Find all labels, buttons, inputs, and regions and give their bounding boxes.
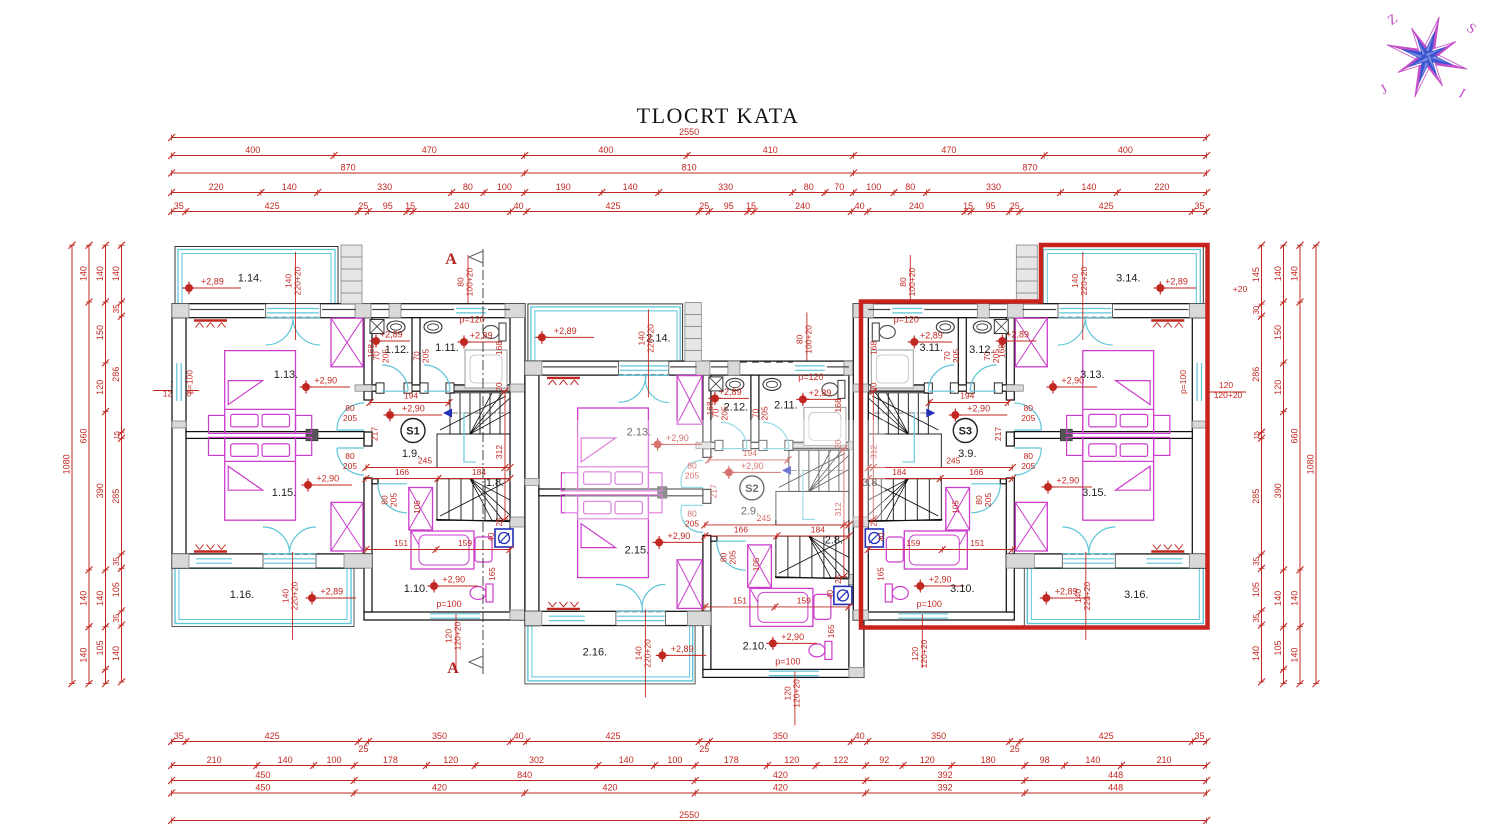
- svg-text:166: 166: [969, 467, 983, 477]
- svg-text:S3: S3: [959, 426, 972, 438]
- wall pier: [525, 478, 539, 485]
- svg-text:2.11.: 2.11.: [774, 399, 798, 411]
- nightstand: [209, 437, 225, 455]
- svg-text:140: 140: [1081, 182, 1096, 192]
- door jamb cap: [924, 383, 932, 393]
- rooms-hall wall c: [703, 535, 711, 611]
- door jamb cap: [966, 383, 974, 393]
- stairs (S2): [789, 450, 849, 491]
- svg-text:15: 15: [112, 431, 121, 439]
- svg-text:+2,90: +2,90: [781, 632, 804, 642]
- svg-text:25: 25: [699, 201, 709, 211]
- svg-text:25: 25: [1010, 744, 1020, 754]
- door glass: [264, 558, 315, 560]
- sink: [387, 321, 405, 333]
- svg-text:80: 80: [1024, 451, 1034, 461]
- svg-text:245: 245: [418, 456, 432, 466]
- svg-text:400: 400: [598, 145, 613, 155]
- svg-text:205: 205: [983, 493, 993, 507]
- svg-text:+2,90: +2,90: [316, 474, 339, 484]
- svg-text:+2,89: +2,89: [671, 644, 694, 654]
- bathtub (S3): [904, 531, 967, 569]
- svg-text:40: 40: [514, 201, 524, 211]
- svg-text:217: 217: [993, 427, 1003, 441]
- left outer wall: [172, 318, 186, 568]
- svg-text:70: 70: [834, 182, 844, 192]
- svg-text:140: 140: [95, 591, 105, 606]
- svg-text:140: 140: [95, 266, 105, 281]
- svg-text:1.8.: 1.8.: [486, 477, 504, 489]
- wall pier: [977, 304, 989, 318]
- stair bottom edge: [775, 577, 849, 579]
- left outer wall: [1192, 318, 1206, 568]
- shower (S2): [709, 377, 723, 391]
- dim line: [1261, 245, 1263, 682]
- svg-text:425: 425: [605, 731, 620, 741]
- dim line: [105, 245, 107, 683]
- wall pier: [172, 421, 186, 428]
- wall pier: [696, 442, 711, 448]
- hall wardrobe: [946, 488, 970, 531]
- svg-text:390: 390: [1273, 483, 1283, 498]
- wall pier: [849, 441, 864, 449]
- section flag top: [469, 251, 483, 263]
- level mark: [658, 651, 666, 659]
- wall pier: [1006, 385, 1023, 391]
- wall pier: [1189, 554, 1206, 568]
- svg-text:35: 35: [112, 613, 121, 622]
- balcony door top (S3): [1058, 304, 1113, 318]
- door jamb cap: [715, 440, 723, 450]
- bath left wall: [1006, 554, 1014, 612]
- svg-text:p=100: p=100: [436, 599, 461, 609]
- svg-text:35: 35: [112, 304, 121, 313]
- svg-text:220+20: 220+20: [290, 581, 300, 610]
- stair break line: [779, 539, 845, 573]
- level mark: [460, 338, 468, 346]
- svg-text:190: 190: [556, 182, 571, 192]
- svg-text:140: 140: [111, 646, 121, 661]
- svg-text:120: 120: [1219, 380, 1233, 390]
- level mark: [1049, 383, 1057, 391]
- svg-text:105: 105: [1251, 582, 1261, 597]
- stair bottom edge: [868, 520, 942, 522]
- dim line: [172, 192, 1207, 194]
- door glass: [1059, 308, 1111, 310]
- stairs (S1): [450, 393, 510, 434]
- nightstand: [1067, 437, 1083, 455]
- hall wardrobe: [409, 488, 433, 531]
- door room bottom: [1014, 448, 1041, 475]
- svg-text:205: 205: [421, 349, 431, 363]
- bath wall seg1: [364, 385, 382, 391]
- svg-text:+2,89: +2,89: [320, 587, 343, 597]
- wall end cap: [658, 487, 667, 499]
- svg-text:25: 25: [495, 517, 504, 526]
- svg-text:205: 205: [343, 413, 357, 423]
- wardrobe top: [331, 318, 363, 367]
- svg-text:240: 240: [795, 201, 810, 211]
- bath cabinet: [886, 537, 903, 562]
- svg-text:105: 105: [95, 640, 105, 655]
- toilet: [822, 380, 845, 398]
- svg-text:100+20: 100+20: [803, 325, 813, 354]
- wall pier: [853, 384, 868, 392]
- svg-text:840: 840: [517, 770, 532, 780]
- section flag bottom: [469, 656, 483, 668]
- door bath 3: [717, 541, 746, 570]
- level mark: [185, 284, 193, 292]
- door bath 2: [424, 365, 450, 391]
- wall pier: [510, 384, 525, 392]
- svg-text:120: 120: [920, 755, 935, 765]
- stair arrow: [443, 409, 452, 418]
- stair break line: [779, 453, 845, 487]
- level mark: [654, 440, 662, 448]
- svg-text:105: 105: [951, 500, 960, 514]
- svg-text:35: 35: [1252, 613, 1261, 622]
- wall pier: [728, 361, 740, 375]
- bath window: [892, 308, 922, 310]
- svg-text:40: 40: [855, 731, 865, 741]
- svg-text:+2,89: +2,89: [920, 331, 943, 341]
- wall pier: [344, 554, 372, 568]
- svg-text:15: 15: [1252, 431, 1261, 439]
- svg-text:120+20: 120+20: [453, 621, 463, 650]
- svg-text:3.11.: 3.11.: [919, 342, 943, 354]
- wall pier: [687, 611, 711, 625]
- svg-text:+2,90: +2,90: [314, 376, 337, 386]
- svg-text:425: 425: [1099, 201, 1114, 211]
- top wall: [525, 361, 864, 375]
- svg-text:95: 95: [383, 201, 393, 211]
- level mark: [302, 383, 310, 391]
- door room bottom: [337, 448, 364, 475]
- level mark: [372, 337, 380, 345]
- svg-text:410: 410: [763, 145, 778, 155]
- wall pier: [853, 517, 868, 527]
- svg-text:205: 205: [727, 550, 737, 564]
- svg-text:151: 151: [733, 595, 747, 605]
- svg-text:220+20: 220+20: [642, 639, 652, 668]
- sink: [726, 378, 744, 390]
- door bath 2: [928, 365, 954, 391]
- bath window: [456, 308, 486, 310]
- svg-text:95: 95: [724, 201, 734, 211]
- svg-text:p=120: p=120: [798, 372, 823, 382]
- svg-text:2.8.: 2.8.: [825, 534, 843, 546]
- wardrobe top: [1015, 318, 1047, 367]
- door bath 2: [763, 422, 789, 448]
- wall pier: [696, 361, 710, 375]
- dim line: [121, 245, 123, 682]
- stair rail: [803, 469, 815, 519]
- unit circle S1: [401, 419, 425, 443]
- door jamb cap: [420, 383, 428, 393]
- svg-text:302: 302: [529, 755, 544, 765]
- rooms-hall wall a: [703, 375, 711, 457]
- level mark: [655, 538, 663, 546]
- svg-text:25: 25: [699, 744, 709, 754]
- dim line: [88, 245, 90, 683]
- party-side wall: [853, 304, 868, 620]
- bath cabinet: [475, 537, 492, 562]
- wall pier: [849, 667, 864, 677]
- svg-text:420: 420: [602, 783, 617, 793]
- svg-text:2550: 2550: [679, 810, 699, 820]
- svg-text:1.13.: 1.13.: [274, 369, 298, 381]
- svg-text:+2,90: +2,90: [1061, 376, 1084, 386]
- svg-text:120: 120: [784, 755, 799, 765]
- rooms-hall wall a: [1006, 318, 1014, 400]
- stair bottom edge: [436, 520, 510, 522]
- unit circle S3: [953, 419, 977, 443]
- svg-text:350: 350: [773, 731, 788, 741]
- door jamb cap: [446, 383, 454, 393]
- wardrobe bottom: [677, 560, 702, 609]
- svg-text:240: 240: [454, 201, 469, 211]
- svg-text:+2,90: +2,90: [402, 404, 425, 414]
- svg-text:140: 140: [79, 266, 89, 281]
- svg-text:3.14.: 3.14.: [1116, 273, 1140, 285]
- dim line: [172, 741, 1207, 743]
- opening dash: [1058, 316, 1113, 318]
- svg-text:178: 178: [383, 755, 398, 765]
- dim line: [1315, 245, 1317, 683]
- dim line: [172, 820, 1207, 822]
- svg-text:80: 80: [345, 403, 355, 413]
- bath tub 1.11: [871, 350, 913, 388]
- svg-text:140: 140: [623, 182, 638, 192]
- svg-text:15: 15: [746, 201, 756, 211]
- bath door jamb: [1000, 479, 1006, 484]
- svg-text:80: 80: [463, 182, 473, 192]
- bath divider: [751, 375, 759, 442]
- bath wall seg2: [954, 385, 970, 391]
- svg-text:35: 35: [174, 201, 184, 211]
- svg-text:2.12.: 2.12.: [724, 401, 748, 413]
- svg-text:168: 168: [494, 341, 504, 355]
- svg-text:166: 166: [395, 467, 409, 477]
- walking line: [452, 412, 505, 414]
- bedroom divider wall: [186, 432, 364, 439]
- level mark: [916, 582, 924, 590]
- level mark: [799, 395, 807, 403]
- svg-text:420: 420: [432, 783, 447, 793]
- svg-text:140: 140: [1273, 591, 1283, 606]
- wall pier: [510, 517, 525, 527]
- svg-text:80: 80: [345, 451, 355, 461]
- svg-text:140: 140: [278, 755, 293, 765]
- level mark: [725, 468, 733, 476]
- wall pier: [525, 611, 542, 625]
- section line A-A: [482, 252, 484, 674]
- nightstand: [1154, 415, 1170, 433]
- opening dash: [263, 553, 316, 555]
- door leaf L: [1085, 318, 1112, 345]
- svg-text:168: 168: [705, 401, 715, 415]
- walking line: [791, 469, 844, 471]
- svg-text:3.16.: 3.16.: [1124, 589, 1148, 601]
- svg-text:25: 25: [1010, 201, 1020, 211]
- svg-text:+20: +20: [1233, 284, 1248, 294]
- svg-text:105: 105: [1273, 640, 1283, 655]
- wall pier: [844, 361, 864, 375]
- dim line: [172, 765, 1207, 767]
- bath bottom window: [769, 670, 819, 672]
- svg-text:140: 140: [111, 266, 121, 281]
- svg-text:95: 95: [985, 201, 995, 211]
- bed room top: [578, 408, 649, 491]
- svg-text:400: 400: [245, 145, 260, 155]
- level mark: [430, 582, 438, 590]
- stair rail: [464, 412, 476, 462]
- dim line: [1283, 245, 1285, 683]
- door jamb cap: [743, 440, 751, 450]
- side window: [176, 363, 178, 401]
- rooms-hall wall b: [364, 432, 372, 446]
- svg-text:210: 210: [207, 755, 222, 765]
- entry dash: [740, 361, 793, 363]
- party-side wall: [510, 304, 525, 620]
- svg-text:30: 30: [1252, 305, 1261, 314]
- svg-text:2.15.: 2.15.: [625, 544, 649, 556]
- svg-text:166: 166: [734, 524, 748, 534]
- entry steps (S1): [341, 245, 362, 304]
- svg-text:159: 159: [906, 538, 920, 548]
- svg-text:120: 120: [443, 755, 458, 765]
- svg-text:+2,90: +2,90: [1056, 476, 1079, 486]
- wall pier: [389, 304, 401, 318]
- rooms-hall wall b: [1006, 432, 1014, 446]
- svg-text:80: 80: [804, 182, 814, 192]
- svg-text:240: 240: [909, 201, 924, 211]
- level mark: [386, 411, 394, 419]
- svg-text:168: 168: [366, 344, 376, 358]
- svg-text:25: 25: [834, 574, 843, 583]
- svg-text:120: 120: [95, 380, 105, 395]
- nightstand: [1067, 415, 1083, 433]
- bed room bottom: [578, 495, 649, 578]
- svg-text:p=120: p=120: [459, 315, 484, 325]
- left outer wall: [525, 375, 539, 625]
- bath bottom window: [430, 613, 480, 615]
- walking line: [873, 412, 926, 414]
- bath wall seg1: [996, 385, 1014, 391]
- svg-text:151: 151: [394, 538, 408, 548]
- svg-text:448: 448: [1108, 783, 1123, 793]
- svg-text:+2,89: +2,89: [554, 326, 577, 336]
- bath door jamb: [372, 479, 378, 484]
- svg-text:450: 450: [255, 770, 270, 780]
- svg-text:870: 870: [341, 163, 356, 173]
- wall pier: [1006, 554, 1034, 568]
- svg-text:150: 150: [1273, 325, 1283, 340]
- svg-text:151: 151: [970, 538, 984, 548]
- svg-text:+2,89: +2,89: [809, 388, 832, 398]
- svg-text:165: 165: [827, 624, 836, 638]
- svg-text:425: 425: [1099, 731, 1114, 741]
- svg-text:205: 205: [951, 349, 961, 363]
- svg-text:194: 194: [404, 391, 418, 401]
- svg-text:168: 168: [833, 398, 843, 412]
- svg-text:448: 448: [1108, 770, 1123, 780]
- svg-text:350: 350: [931, 731, 946, 741]
- svg-text:140: 140: [79, 648, 89, 663]
- stairs (S3): [868, 393, 928, 434]
- door leaf L: [619, 375, 646, 402]
- svg-text:390: 390: [95, 483, 105, 498]
- bathtub (S2): [750, 588, 813, 626]
- svg-text:35: 35: [1194, 201, 1204, 211]
- svg-text:35: 35: [112, 556, 121, 565]
- door leaf L: [1089, 527, 1116, 554]
- balcony bottom (S2): [525, 626, 695, 684]
- svg-text:35: 35: [1252, 556, 1261, 565]
- svg-text:286: 286: [1251, 367, 1261, 382]
- bath divider: [958, 318, 966, 385]
- door leaf L: [266, 318, 293, 345]
- wardrobe bottom: [331, 502, 363, 551]
- svg-text:450: 450: [255, 783, 270, 793]
- rooms-hall wall c: [1006, 478, 1014, 554]
- svg-text:+2,89: +2,89: [470, 331, 493, 341]
- balcony top (S3): [1040, 247, 1203, 304]
- svg-text:+2,89: +2,89: [1165, 277, 1188, 287]
- door glass: [617, 615, 665, 617]
- balcony bottom (S3): [1024, 568, 1206, 626]
- svg-text:40: 40: [855, 201, 865, 211]
- bath wall seg2: [408, 385, 424, 391]
- toilet: [809, 641, 832, 659]
- svg-text:425: 425: [605, 201, 620, 211]
- svg-text:A: A: [445, 251, 457, 268]
- level mark: [308, 594, 316, 602]
- stair break line: [440, 396, 506, 430]
- svg-text:+2,89: +2,89: [719, 387, 742, 397]
- door jamb cap: [950, 383, 958, 393]
- svg-text:194: 194: [960, 391, 974, 401]
- wall pier: [355, 385, 372, 391]
- svg-text:105: 105: [111, 582, 121, 597]
- svg-text:140: 140: [1290, 591, 1300, 606]
- svg-text:810: 810: [682, 163, 697, 173]
- svg-text:25: 25: [358, 201, 368, 211]
- wall pier: [525, 361, 542, 375]
- svg-text:1.11.: 1.11.: [435, 342, 459, 354]
- top wall: [172, 304, 525, 318]
- bath door jamb: [711, 536, 717, 541]
- door glass: [1063, 558, 1114, 560]
- bed room bottom: [1083, 437, 1154, 520]
- svg-text:217: 217: [370, 427, 380, 441]
- svg-text:392: 392: [938, 783, 953, 793]
- shower (S3): [994, 320, 1008, 334]
- bath wall seg3: [450, 385, 510, 391]
- wall pier: [510, 610, 525, 620]
- svg-text:205: 205: [343, 461, 357, 471]
- dim line: [1299, 245, 1301, 683]
- entry steps (S2): [685, 302, 701, 361]
- hatched wall fill: [870, 386, 926, 391]
- dim line: [172, 137, 1207, 139]
- svg-text:+2,89: +2,89: [1006, 330, 1029, 340]
- nightstand: [561, 473, 577, 491]
- bed room top: [225, 351, 296, 434]
- svg-text:1.14.: 1.14.: [238, 273, 262, 285]
- svg-text:205: 205: [759, 406, 769, 420]
- bed room bottom: [225, 437, 296, 520]
